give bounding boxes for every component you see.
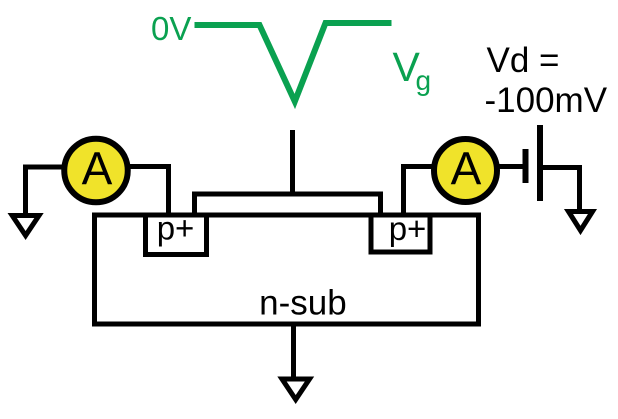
svg-text:A: A — [82, 143, 113, 195]
ground (left) — [12, 216, 39, 236]
svg-text:p+: p+ — [389, 210, 427, 247]
ammeter A (right) — [434, 139, 497, 202]
Vg gate voltage waveform — [195, 23, 392, 102]
svg-text:n-sub: n-sub — [259, 284, 347, 323]
p+ region (left) — [146, 215, 207, 255]
wire left ammeter to ground — [26, 167, 63, 213]
svg-text:g: g — [416, 65, 432, 96]
n-sub substrate body — [95, 215, 479, 324]
wire battery to right ground — [542, 168, 580, 212]
wire drain p+ to right ammeter — [404, 167, 435, 216]
svg-text:p+: p+ — [157, 210, 195, 247]
p+ region (right) — [371, 215, 430, 252]
ground (bottom) — [282, 379, 310, 400]
gate electrode — [195, 194, 381, 215]
svg-text:Vd =: Vd = — [487, 41, 560, 80]
svg-text:0V: 0V — [151, 10, 191, 47]
svg-text:A: A — [451, 143, 482, 195]
wire left ammeter to source p+ — [127, 167, 169, 216]
wire right ammeter to battery — [497, 164, 524, 169]
battery plate short (Vd source) — [523, 149, 529, 183]
wire substrate to ground — [291, 327, 296, 379]
ground (right) — [569, 212, 593, 231]
wire gate — [290, 130, 295, 196]
ammeter A (left) — [64, 139, 128, 203]
battery plate long (Vd source) — [537, 125, 543, 201]
svg-text:-100mV: -100mV — [485, 81, 608, 120]
